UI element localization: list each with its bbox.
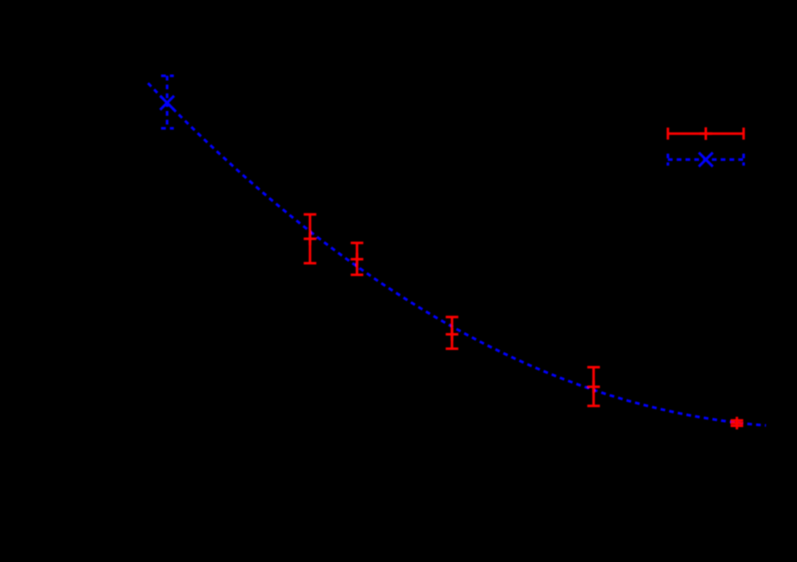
marker X of B1 [160,96,174,110]
data point R2 (red error bar) [351,243,364,275]
data point R5 (red error bar) [731,417,744,430]
data point R3 (red error bar) [446,317,459,349]
legend sample red (solid errorbar) [668,127,744,140]
legend sample blue (dashed line) [668,154,744,166]
data point R4 (red error bar) [587,367,600,406]
legend marker X blue [699,153,713,167]
fitted curve (blue dashed) [148,83,766,425]
data point R1 (red error bar) [304,214,317,263]
data point B1 (blue dashed error bar) [161,76,174,129]
